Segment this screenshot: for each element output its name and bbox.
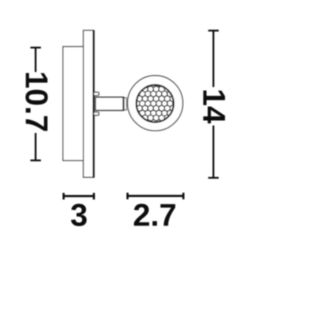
wall plate thick right edge	[93, 30, 95, 177]
dimension text 2.7	[134, 204, 175, 226]
neck	[124, 98, 127, 110]
dimension 14 (right vertical)	[208, 31, 219, 178]
dimension text 14	[203, 90, 225, 123]
head outer circle	[128, 76, 183, 131]
wall plate (narrow side-view rectangle)	[83, 30, 93, 177]
dimension text 3	[71, 204, 87, 226]
head inner rim circle	[136, 85, 173, 122]
dimension 10.7 (left vertical)	[30, 48, 41, 161]
dimension 2.7 (bottom-right horizontal)	[128, 193, 184, 200]
mounting tab lower	[94, 112, 99, 115]
dimension 3 (bottom-left horizontal)	[64, 193, 94, 200]
backbox (wide rectangle)	[63, 47, 83, 161]
arm end thick edge	[123, 97, 125, 111]
mounting tab upper	[94, 92, 99, 95]
arm	[95, 97, 123, 110]
dimension text 10.7	[25, 73, 47, 131]
